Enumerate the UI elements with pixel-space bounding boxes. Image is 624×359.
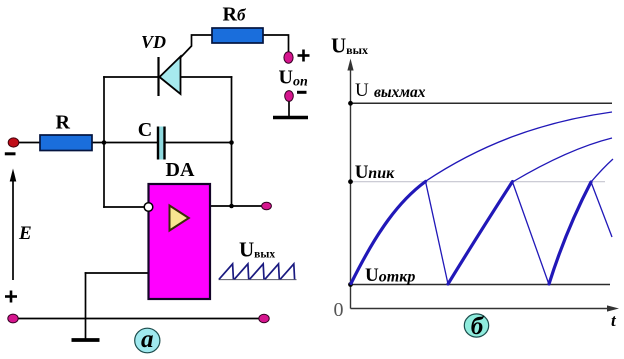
svg-text:Rб: Rб <box>223 4 247 26</box>
svg-text:R: R <box>56 112 71 134</box>
svg-text:U: U <box>355 162 369 183</box>
svg-text:откр: откр <box>379 268 416 285</box>
svg-text:DA: DA <box>166 159 195 181</box>
svg-text:выхмах: выхмах <box>374 84 426 101</box>
svg-text:VD: VD <box>141 32 166 52</box>
svg-text:а: а <box>141 326 154 353</box>
svg-text:E: E <box>18 223 32 244</box>
svg-text:пик: пик <box>368 165 395 182</box>
svg-text:C: C <box>138 119 152 141</box>
svg-text:0: 0 <box>334 299 344 321</box>
svg-text:б: б <box>471 313 485 340</box>
svg-text:U: U <box>365 265 379 286</box>
svg-text:U: U <box>355 80 369 101</box>
